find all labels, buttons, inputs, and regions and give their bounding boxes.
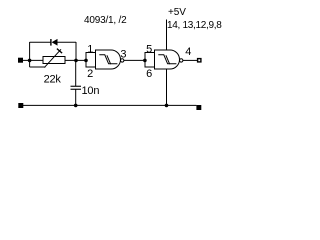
svg-text:5: 5 [146, 44, 152, 56]
wire loop top (diode branch) [30, 41, 51, 43]
wire: main input rail [23, 20, 197, 106]
op-amp gate U1B 4093 body [155, 50, 180, 69]
terminal output open square [198, 59, 201, 62]
wire gate1 input bracket [86, 53, 96, 68]
gate U1B schmitt symbol [158, 55, 176, 64]
svg-text:14, 13,12,9,8: 14, 13,12,9,8 [167, 20, 222, 31]
wire rail trimmer to gate1 [65, 59, 86, 61]
wire loop left vertical [29, 42, 31, 67]
wire capacitor bottom lead [75, 89, 77, 105]
node junction dot trimmer right [74, 59, 78, 63]
node junction dot cap to bus [74, 104, 78, 108]
gate U1B output bubble [180, 59, 183, 62]
capacitor C1 plates [71, 86, 82, 87]
wire capacitor top lead [75, 60, 77, 86]
resistor trimmer 22k body [43, 57, 65, 64]
wire bottom ground bus [23, 104, 196, 106]
gate U1A output bubble [121, 59, 124, 62]
svg-text:1: 1 [87, 44, 93, 56]
node junction dot gate1 input [84, 59, 88, 63]
wire +5V supply line pin 14 [166, 20, 168, 51]
svg-text:4093/1, /2: 4093/1, /2 [84, 15, 127, 26]
wire input rail left [23, 59, 43, 61]
resistor trimmer wiper end bar [57, 49, 62, 54]
svg-text:10n: 10n [82, 85, 100, 97]
svg-text:4: 4 [185, 46, 191, 58]
diode D1 cathode bar [50, 39, 51, 46]
svg-text:22k: 22k [44, 74, 62, 86]
node junction dot input [28, 59, 32, 63]
wire gate2 input bracket [145, 53, 155, 68]
gate U1A schmitt symbol [99, 55, 117, 64]
terminal ground square bottom left [18, 103, 23, 108]
svg-text:+5V: +5V [168, 7, 186, 18]
resistor trimmer wiper diagonal [44, 49, 61, 67]
svg-text:6: 6 [146, 68, 152, 80]
wire pin3 to gate2 [124, 59, 145, 61]
wire pin4 output [183, 59, 197, 61]
svg-text:2: 2 [87, 68, 93, 80]
terminal ground square bottom right [196, 105, 201, 110]
node junction dot gate2 input [143, 59, 147, 63]
wire ground line pin 7 [166, 69, 168, 105]
node junction dot gnd to bus [165, 104, 169, 108]
op-amp gate U1A 4093 body [96, 50, 121, 69]
terminal input square left [18, 58, 23, 63]
wire loop right vertical [75, 42, 77, 60]
svg-text:3: 3 [120, 49, 126, 61]
wire wiper return bottom [30, 66, 46, 68]
diode D1 triangle [52, 39, 58, 46]
